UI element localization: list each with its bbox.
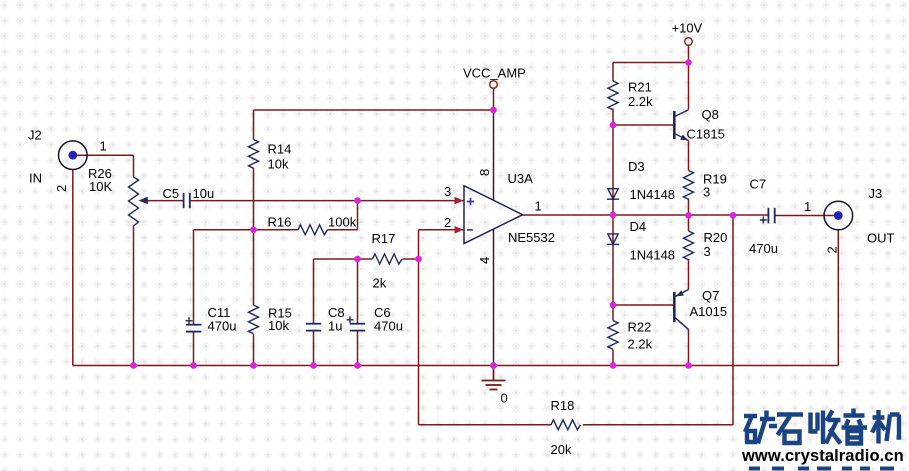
node rail R22 bbox=[610, 362, 617, 369]
svg-text:2.2k: 2.2k bbox=[628, 94, 653, 109]
node R19 R20 output bbox=[685, 212, 692, 219]
svg-text:10k: 10k bbox=[268, 157, 289, 172]
svg-text:+10V: +10V bbox=[672, 21, 703, 36]
ground symbol 0 bbox=[482, 366, 506, 390]
pin arrow U3A pin3 bbox=[455, 197, 464, 205]
wire bottom ground rail bbox=[73, 365, 839, 367]
node opamp output at D3 D4 bbox=[610, 212, 617, 219]
svg-text:2: 2 bbox=[444, 215, 451, 230]
wire feedback loop R18 bbox=[419, 215, 734, 424]
svg-text:U3A: U3A bbox=[508, 171, 534, 186]
wire J2 pin2 bbox=[72, 170, 74, 366]
capacitor C11 bbox=[186, 325, 202, 332]
svg-text:2: 2 bbox=[54, 185, 69, 192]
wire minus input bbox=[419, 230, 465, 259]
svg-text:D4: D4 bbox=[630, 219, 647, 234]
svg-text:8: 8 bbox=[477, 169, 492, 176]
capacitor C8 bbox=[306, 324, 321, 331]
svg-text:1u: 1u bbox=[328, 319, 342, 334]
connector J3 bbox=[824, 201, 853, 230]
resistor R17 bbox=[373, 254, 402, 264]
svg-text:0: 0 bbox=[501, 391, 508, 406]
svg-text:4: 4 bbox=[477, 257, 492, 264]
svg-text:2k: 2k bbox=[373, 276, 387, 291]
wire C6 branch bbox=[357, 259, 359, 366]
svg-text:1N4148: 1N4148 bbox=[630, 248, 676, 263]
power terminal +10V bbox=[685, 38, 693, 46]
potentiometer R26 wiper arrow bbox=[139, 197, 148, 205]
node R17 feedback bbox=[415, 256, 422, 263]
node bias divider bbox=[250, 227, 257, 234]
svg-text:100k: 100k bbox=[328, 215, 357, 230]
node Q7 base bbox=[610, 302, 617, 309]
wire J3 pin2 bbox=[837, 230, 839, 366]
node feedback tap bbox=[730, 212, 737, 219]
wire pin4 of U3A to ground bbox=[493, 229, 495, 365]
svg-text:10u: 10u bbox=[193, 186, 215, 201]
wire +10V rail bbox=[613, 62, 689, 64]
node +10V rail bbox=[685, 59, 692, 66]
node rail C8 bbox=[310, 362, 317, 369]
node rail ground bbox=[490, 362, 497, 369]
svg-text:470u: 470u bbox=[749, 241, 778, 256]
wire pin8 of U3A bbox=[493, 110, 495, 200]
svg-text:J3: J3 bbox=[869, 186, 883, 201]
wire R20 leads bbox=[688, 215, 690, 289]
wire top rail VCC bbox=[254, 109, 494, 111]
node plus input R16 bbox=[354, 197, 361, 204]
svg-text:3: 3 bbox=[704, 244, 711, 259]
plus mark C7 bbox=[760, 217, 767, 224]
svg-text:NE5532: NE5532 bbox=[508, 230, 555, 245]
wire R17 leads bbox=[358, 258, 419, 260]
minus mark U3A bbox=[467, 229, 473, 231]
svg-text:R22: R22 bbox=[628, 320, 652, 335]
plus mark C6 bbox=[347, 316, 354, 323]
plus mark C11 bbox=[186, 317, 193, 324]
node VCC_AMP rail bbox=[490, 107, 497, 114]
wire R16 riser bbox=[357, 201, 359, 230]
pin arrow U3A pin2 bbox=[455, 226, 464, 234]
wire Q7 base bbox=[613, 304, 673, 306]
potentiometer R26 body bbox=[129, 177, 139, 226]
capacitor C7 bbox=[768, 208, 774, 224]
wire R16 row leads bbox=[254, 229, 358, 231]
wire C8 branch bbox=[314, 259, 358, 366]
svg-text:OUT: OUT bbox=[867, 231, 895, 246]
wire wiper to C5 bbox=[148, 200, 184, 202]
svg-text:J2: J2 bbox=[28, 128, 42, 143]
svg-text:D3: D3 bbox=[628, 159, 645, 174]
svg-text:A1015: A1015 bbox=[690, 304, 728, 319]
power terminal VCC_AMP bbox=[490, 81, 498, 89]
op-amp U3A bbox=[464, 186, 523, 244]
svg-text:C5: C5 bbox=[163, 186, 180, 201]
svg-text:10K: 10K bbox=[89, 179, 112, 194]
node rail Q7 bbox=[685, 362, 692, 369]
resistor R19 bbox=[684, 171, 694, 200]
svg-text:1: 1 bbox=[100, 139, 107, 154]
svg-text:R14: R14 bbox=[268, 142, 292, 157]
svg-text:www.crystalradio.cn: www.crystalradio.cn bbox=[741, 447, 904, 465]
resistor R21 bbox=[608, 81, 618, 110]
wire R21 leads bbox=[612, 63, 614, 126]
watermark chinese characters bbox=[744, 409, 900, 445]
resistor R14 bbox=[249, 140, 259, 169]
svg-text:IN: IN bbox=[29, 171, 42, 186]
wire C5 to U3A plus input bbox=[190, 200, 464, 202]
node rail C6 bbox=[354, 362, 361, 369]
svg-text:R21: R21 bbox=[628, 80, 652, 95]
wire C7 to J3 bbox=[775, 215, 835, 217]
svg-text:Q7: Q7 bbox=[702, 288, 719, 303]
node rail C11 bbox=[190, 362, 197, 369]
wire diode column bbox=[612, 125, 614, 305]
resistor R15 bbox=[249, 305, 259, 334]
svg-text:470u: 470u bbox=[374, 319, 403, 334]
capacitor C6 bbox=[350, 324, 365, 331]
wire R14 column bbox=[253, 110, 255, 366]
wire R22 leads bbox=[612, 305, 614, 366]
svg-text:Q8: Q8 bbox=[702, 107, 719, 122]
wire Q8 emitter to R19 bbox=[688, 141, 690, 216]
svg-text:2.2k: 2.2k bbox=[628, 337, 653, 352]
node rail R26 bbox=[130, 362, 137, 369]
wire Q8 collector riser bbox=[688, 63, 690, 110]
watermark crystalradio bbox=[741, 447, 904, 465]
wire R26 bottom bbox=[133, 226, 135, 366]
watermark partial bottom row bbox=[749, 467, 894, 471]
svg-text:R20: R20 bbox=[704, 230, 728, 245]
diode D4 bbox=[607, 234, 619, 245]
node rail R15 bbox=[250, 362, 257, 369]
svg-text:R17: R17 bbox=[372, 231, 396, 246]
svg-text:C7: C7 bbox=[750, 177, 767, 192]
svg-text:R16: R16 bbox=[268, 215, 292, 230]
svg-text:C1815: C1815 bbox=[687, 127, 725, 142]
svg-text:1: 1 bbox=[535, 199, 542, 214]
wire VCC terminal drop bbox=[493, 88, 495, 110]
transistor Q8 bbox=[674, 110, 688, 141]
svg-text:1N4148: 1N4148 bbox=[630, 187, 676, 202]
resistor R20 bbox=[684, 231, 694, 260]
svg-text:2: 2 bbox=[825, 246, 840, 253]
plus mark U3A bbox=[467, 198, 474, 205]
node R17 C6 bbox=[354, 256, 361, 263]
node Q8 base bbox=[610, 122, 617, 129]
svg-text:20k: 20k bbox=[551, 442, 572, 457]
svg-text:3: 3 bbox=[444, 184, 451, 199]
svg-text:3: 3 bbox=[703, 185, 710, 200]
transistor Q7 bbox=[674, 290, 688, 330]
wire Q8 base bbox=[613, 124, 673, 126]
svg-text:1: 1 bbox=[804, 199, 811, 214]
connector J2 bbox=[59, 141, 88, 170]
resistor R22 bbox=[608, 321, 618, 350]
wire +10V drop bbox=[688, 45, 690, 62]
wire Q7 collector drop bbox=[688, 330, 690, 366]
svg-text:R18: R18 bbox=[551, 398, 575, 413]
diode D3 bbox=[607, 189, 619, 200]
resistor R18 bbox=[551, 420, 580, 430]
wire output row bbox=[523, 214, 769, 216]
svg-text:10k: 10k bbox=[268, 318, 289, 333]
wire C11 branch bbox=[194, 230, 254, 366]
svg-text:470u: 470u bbox=[208, 319, 237, 334]
svg-text:VCC_AMP: VCC_AMP bbox=[463, 66, 526, 81]
wire J2 pin1 to R26 bbox=[77, 155, 134, 177]
resistor R16 bbox=[298, 225, 327, 235]
capacitor C5 bbox=[184, 193, 190, 208]
